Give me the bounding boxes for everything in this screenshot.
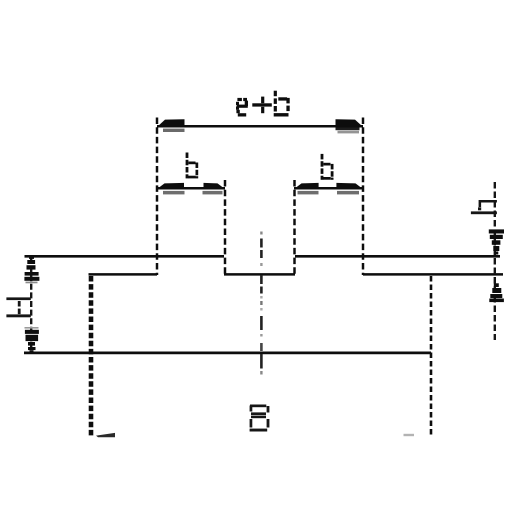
- wire: dimension line h (x=494.8): [494, 182, 496, 340]
- arrowhead B left tick: [96, 433, 115, 437]
- arrowhead b-left right: [203, 183, 225, 195]
- wire: bottom profile line: [24, 352, 431, 355]
- wire: dimension line b left: [157, 187, 225, 190]
- wire: dimension line b right: [294, 187, 363, 190]
- wire: extension line left of e+b (x=157): [156, 118, 159, 276]
- wire: hidden edge right heavy dashed (x=431): [430, 276, 433, 437]
- label b left: [186, 153, 199, 179]
- wire: dimension line e+b: [157, 125, 363, 128]
- wire: extension line right of e+b (x=363): [362, 118, 365, 276]
- wire: top profile line right segment: [295, 255, 500, 258]
- wire: groove bottom line: [224, 273, 295, 276]
- arrowhead B right tick: [404, 434, 415, 436]
- wire: groove wall right hidden (x=294.5): [293, 180, 296, 274]
- label H (rotated): [6, 297, 30, 317]
- arrowhead b-left left: [158, 183, 185, 195]
- arrowhead b-right right: [336, 183, 362, 195]
- label b right: [321, 154, 334, 180]
- arrowhead b-right left: [295, 183, 319, 195]
- wire: step line left (y=274.4): [89, 273, 158, 276]
- arrowhead h top (banded, pointing down): [489, 229, 504, 254]
- arrowhead e+b right: [336, 119, 363, 133]
- wire: step line right extended to h extension: [363, 273, 503, 276]
- arrowhead H bottom (banded, pointing down): [25, 327, 39, 352]
- arrowhead e+b left: [158, 119, 185, 132]
- arrowhead h bottom (banded, pointing up): [489, 283, 504, 302]
- label B: [250, 405, 270, 432]
- wire: top profile line left segment: [25, 255, 225, 258]
- label h (rotated): [471, 200, 497, 214]
- wire: dimension line H (x=31.2): [30, 258, 32, 351]
- wire: hidden edge left heavy dashed (x=90.5): [89, 276, 94, 437]
- arrowhead H top (banded, pointing up): [24, 257, 39, 283]
- wire: groove wall left hidden (x=225): [224, 180, 227, 274]
- label e+b: [236, 91, 290, 117]
- wire: centerline (dash-dot, uneven scan look): [260, 232, 263, 375]
